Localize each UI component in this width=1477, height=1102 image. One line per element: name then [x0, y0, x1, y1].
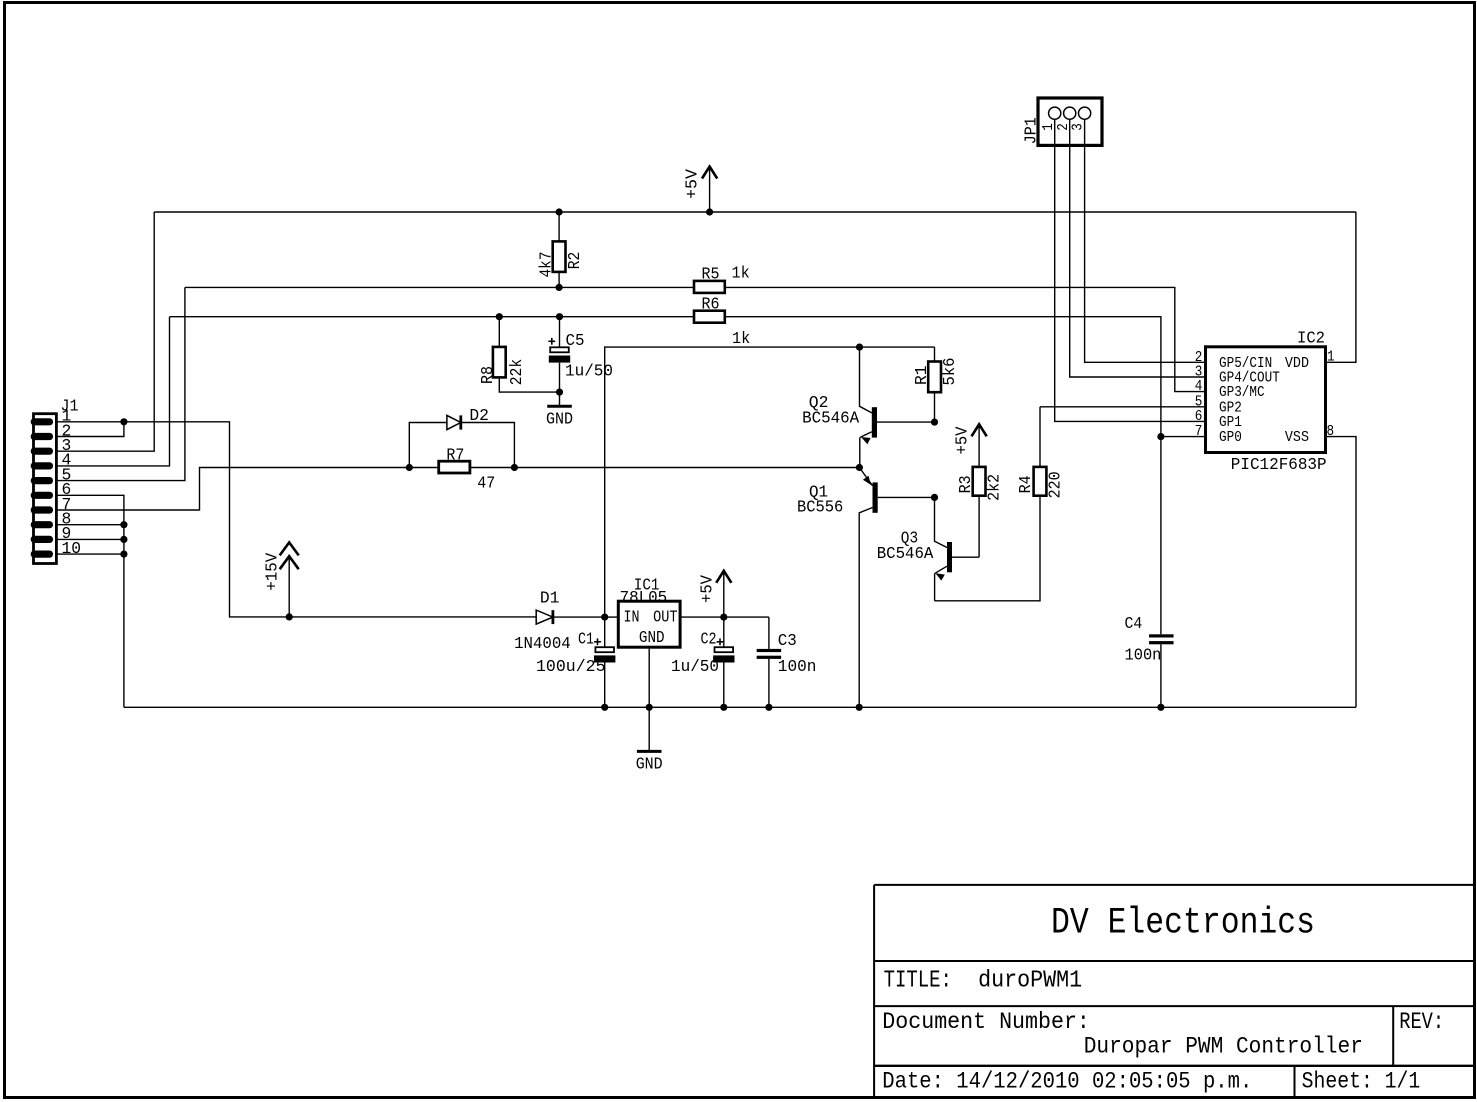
capacitor C1	[536, 617, 615, 707]
svg-text:+5V: +5V	[684, 169, 703, 199]
svg-text:1: 1	[1327, 350, 1335, 366]
svg-text:PIC12F683P: PIC12F683P	[1231, 456, 1327, 475]
transistor Q1	[797, 468, 935, 708]
diode D2	[447, 407, 489, 429]
power +5V (R3)	[954, 424, 987, 467]
svg-text:4: 4	[1195, 379, 1203, 395]
title block title	[884, 967, 1083, 994]
svg-text:IN: IN	[624, 609, 640, 628]
svg-text:22k: 22k	[508, 359, 527, 386]
node Q1 collector rail junction	[856, 704, 863, 711]
svg-text:GP1: GP1	[1219, 415, 1242, 431]
svg-text:BC546A: BC546A	[802, 409, 860, 428]
transistor Q3	[877, 497, 979, 600]
resistor R1	[913, 347, 960, 422]
svg-text:duroPWM1: duroPWM1	[978, 967, 1082, 994]
node C3 rail junction	[765, 704, 772, 711]
wire J1 pin1 to D1 row	[56, 422, 536, 617]
resistor R4	[1017, 407, 1066, 499]
svg-text:R1: R1	[913, 365, 932, 385]
title block date	[882, 1068, 1252, 1094]
wire J1 pin9	[56, 538, 124, 540]
capacitor C2	[671, 617, 735, 707]
svg-text:4k7: 4k7	[538, 252, 557, 278]
capacitor C4	[1125, 615, 1174, 665]
svg-text:8: 8	[1327, 424, 1335, 440]
node D2 right junction	[511, 464, 518, 471]
capacitor C5	[548, 317, 613, 407]
node pin10 junction	[120, 551, 127, 558]
wire JP1 pin2 to GP4/COUT	[1070, 119, 1206, 377]
svg-text:GP5/CIN: GP5/CIN	[1219, 356, 1272, 372]
node R2 top junction	[556, 208, 563, 215]
wire J1 pin3 to +5V rail	[56, 212, 154, 451]
svg-text:47: 47	[477, 475, 495, 494]
node D1 cathode junction	[601, 614, 608, 621]
node +15V junction	[286, 613, 293, 620]
title block document number	[882, 1009, 1363, 1060]
wire J1 pin7 to emitter row	[56, 468, 859, 511]
svg-text:REV:: REV:	[1399, 1009, 1444, 1035]
svg-text:BC556: BC556	[797, 498, 843, 517]
node GP0 junction	[1157, 433, 1164, 440]
svg-text:Date: 14/12/2010 02:05:05 p.m.: Date: 14/12/2010 02:05:05 p.m.	[882, 1068, 1252, 1094]
node pin9 junction	[120, 536, 127, 543]
svg-text:R5: R5	[702, 265, 720, 284]
svg-text:GP3/MC: GP3/MC	[1219, 385, 1265, 401]
wire R5 row to GP3/MC	[185, 287, 1206, 391]
svg-text:R2: R2	[566, 252, 585, 270]
svg-text:GND: GND	[546, 410, 573, 429]
svg-text:+5V: +5V	[698, 575, 717, 603]
node C5 top junction	[556, 313, 563, 320]
svg-text:1u/50: 1u/50	[671, 658, 719, 677]
svg-text:R4: R4	[1017, 475, 1036, 493]
op-amp IC1 78L05 regulator	[605, 576, 724, 648]
svg-text:C2: C2	[701, 631, 717, 650]
wire +5V rail	[154, 211, 1356, 213]
svg-text:1N4004: 1N4004	[514, 635, 571, 654]
svg-text:10: 10	[62, 540, 82, 559]
svg-text:+15V: +15V	[264, 553, 283, 591]
svg-text:7: 7	[1195, 424, 1203, 440]
svg-text:R7: R7	[446, 447, 464, 466]
node Q2 collector junction	[856, 344, 863, 351]
svg-text:1u/50: 1u/50	[565, 363, 613, 382]
resistor R5	[694, 264, 750, 293]
title block sheet	[1302, 1068, 1421, 1094]
svg-text:BC546A: BC546A	[877, 545, 935, 564]
svg-text:Document Number:: Document Number:	[882, 1009, 1090, 1035]
node +5V rail junction	[706, 208, 713, 215]
svg-text:+5V: +5V	[954, 427, 973, 455]
node pin8 junction	[120, 521, 127, 528]
power +5V (regulator output)	[698, 571, 731, 617]
resistor R2	[538, 212, 586, 287]
svg-text:GP0: GP0	[1219, 430, 1242, 446]
svg-text:GND: GND	[639, 629, 665, 648]
wire J1 pin8	[56, 524, 124, 526]
wire regulator input to R1/Q2 collector row	[605, 347, 935, 617]
ground GND (IC1)	[636, 751, 663, 774]
node pin1/pin2 junction	[120, 418, 127, 425]
svg-text:VDD: VDD	[1285, 356, 1309, 372]
wire VSS to ground rail	[1326, 437, 1357, 708]
svg-text:J1: J1	[61, 398, 79, 417]
wire JP1 pin1 to GP1	[1055, 119, 1206, 421]
wire VDD drop	[1326, 212, 1356, 362]
diode D1	[514, 589, 605, 654]
svg-text:TITLE:: TITLE:	[884, 967, 952, 994]
svg-text:DV Electronics: DV Electronics	[1051, 903, 1315, 945]
node emitter row junction	[856, 464, 863, 471]
svg-text:D1: D1	[540, 589, 560, 608]
title block frame	[874, 885, 1474, 1097]
power +15V	[264, 542, 299, 617]
svg-text:R3: R3	[957, 475, 976, 493]
svg-text:Duropar PWM Controller: Duropar PWM Controller	[1084, 1033, 1363, 1059]
svg-text:2k2: 2k2	[986, 474, 1005, 501]
svg-text:C5: C5	[566, 332, 585, 351]
svg-text:IC2: IC2	[1297, 330, 1325, 349]
node OUT junction	[720, 614, 727, 621]
svg-text:5k6: 5k6	[941, 358, 960, 386]
title block company	[1051, 903, 1315, 945]
node D2 left junction	[406, 464, 413, 471]
svg-text:3: 3	[1195, 365, 1203, 381]
power +5V (rail)	[684, 167, 718, 213]
svg-text:100u/25: 100u/25	[536, 658, 606, 677]
svg-text:GP2: GP2	[1219, 400, 1242, 416]
svg-text:OUT: OUT	[653, 609, 677, 628]
svg-text:Sheet: 1/1: Sheet: 1/1	[1302, 1068, 1421, 1094]
wire J1 pin5 to R5 row	[56, 287, 185, 480]
node Q1 base junction	[931, 494, 938, 501]
transistor Q2	[802, 347, 934, 467]
connector JP1	[1023, 98, 1103, 145]
resistor R6	[694, 295, 750, 349]
svg-text:GP4/COUT: GP4/COUT	[1219, 371, 1280, 387]
svg-text:1k: 1k	[732, 330, 750, 349]
wire regulator output row	[724, 616, 769, 618]
wire Q3 emitter to R4	[935, 496, 1040, 601]
wire R6 row	[170, 317, 1206, 437]
wire J1 pin6 to ground riser	[56, 495, 124, 707]
node Q2 base junction	[931, 419, 938, 426]
wire J1 pin2 tie to pin1	[56, 422, 124, 437]
svg-text:D2: D2	[469, 407, 489, 426]
svg-text:100n: 100n	[1125, 646, 1162, 665]
wire J1 pin10	[56, 553, 124, 555]
node C5/R8 bottom junction	[556, 389, 563, 396]
ground GND (C5)	[546, 406, 573, 429]
capacitor C3	[757, 617, 817, 707]
resistor R7	[439, 447, 496, 494]
svg-text:C1: C1	[578, 631, 594, 650]
wire ground rail	[124, 706, 1356, 708]
svg-text:R6: R6	[702, 295, 720, 314]
wire J1 pin4 to R6 row	[56, 317, 169, 466]
svg-text:100n: 100n	[778, 658, 817, 677]
node C4 rail junction	[1157, 704, 1164, 711]
svg-text:1k: 1k	[732, 264, 750, 283]
node R8 top junction	[496, 313, 503, 320]
wire D2 branch	[409, 423, 514, 468]
svg-text:JP1: JP1	[1023, 117, 1042, 144]
title block rev	[1399, 1009, 1444, 1035]
wire JP1 pin3 to GP5/CIN	[1085, 119, 1206, 362]
node IC1 GND rail junction	[646, 704, 653, 711]
resistor R3	[957, 467, 1005, 557]
svg-text:C4: C4	[1125, 615, 1143, 634]
node C1 rail junction	[601, 704, 608, 711]
svg-text:6: 6	[1195, 409, 1203, 425]
node C2 rail junction	[720, 704, 727, 711]
resistor R8	[479, 317, 560, 392]
svg-text:GND: GND	[636, 756, 663, 775]
svg-text:220: 220	[1047, 471, 1066, 498]
svg-text:VSS: VSS	[1285, 430, 1309, 446]
svg-text:2: 2	[1195, 350, 1203, 366]
wire GP2 row	[1040, 406, 1206, 408]
wire GP0 node to C4 and ground rail	[1160, 437, 1162, 708]
svg-text:5: 5	[1195, 394, 1203, 410]
wire IC1 GND pin	[648, 647, 650, 751]
svg-text:R8: R8	[479, 366, 498, 384]
svg-text:78L05: 78L05	[620, 589, 668, 608]
svg-text:C3: C3	[778, 632, 797, 651]
op-amp IC2 PIC12F683P	[1195, 330, 1335, 475]
node R2 bottom junction	[556, 284, 563, 291]
connector J1	[31, 398, 81, 564]
